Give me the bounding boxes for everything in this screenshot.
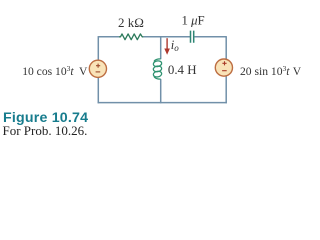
wire left side top xyxy=(97,36,99,60)
inductor L1 0.4 H coil xyxy=(153,59,162,79)
svg-text:io: io xyxy=(171,38,180,53)
wire resistor to capacitor xyxy=(143,36,190,38)
wire top-left segment xyxy=(98,36,119,38)
wire capacitor to top-right corner xyxy=(194,36,226,38)
svg-text:1 μF: 1 μF xyxy=(182,14,205,28)
svg-text:For Prob. 10.26.: For Prob. 10.26. xyxy=(3,123,88,138)
wire right side bottom xyxy=(225,76,227,103)
svg-text:10 cos 103t V: 10 cos 103t V xyxy=(22,64,88,78)
voltage source V2 20 sin xyxy=(215,59,232,76)
wire right side top xyxy=(225,36,227,60)
voltage source V1 10 cos xyxy=(89,60,106,77)
svg-text:20 sin 103t V: 20 sin 103t V xyxy=(240,64,302,78)
current arrow io xyxy=(164,38,170,55)
wire middle branch bottom xyxy=(160,79,162,103)
capacitor C1 1 uF plates xyxy=(191,31,194,43)
wire middle branch top xyxy=(160,37,162,59)
resistor R1 2 kOhm zigzag xyxy=(119,34,143,40)
wire left side bottom xyxy=(97,77,99,103)
svg-text:2 kΩ: 2 kΩ xyxy=(118,15,144,30)
svg-text:0.4 H: 0.4 H xyxy=(168,63,197,77)
wire bottom xyxy=(98,102,227,104)
